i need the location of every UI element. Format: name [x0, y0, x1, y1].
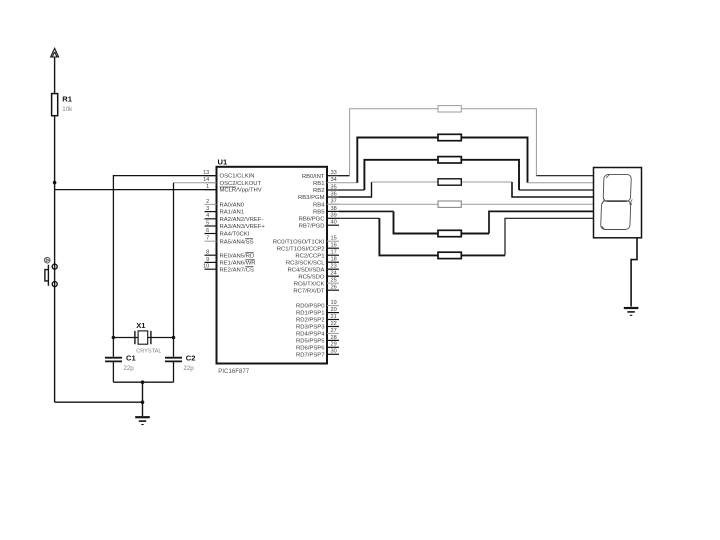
pin 39 RB6/PGC stub [327, 217, 339, 219]
svg-text:2: 2 [206, 199, 209, 205]
svg-text:1: 1 [206, 184, 209, 190]
svg-text:RD2/PSP2: RD2/PSP2 [296, 318, 324, 324]
pin 3 RA1/AN1 stub [205, 211, 217, 213]
svg-text:34: 34 [331, 177, 337, 183]
wire net RB1 to display [528, 182, 594, 184]
svg-text:10k: 10k [62, 106, 73, 113]
display digit middle-left tick [602, 199, 605, 204]
pin 16 RC1/T1OSI/CCP2 stub [327, 247, 339, 249]
pin 17 RC2/CCP1 stub [327, 254, 339, 256]
svg-text:28: 28 [331, 335, 337, 341]
pin 6 RA4/T0CKI stub [205, 233, 217, 235]
svg-text:39: 39 [331, 213, 337, 219]
wire OSC1 net [113, 176, 216, 357]
svg-text:15: 15 [331, 236, 337, 242]
svg-text:RD4/PSP4: RD4/PSP4 [296, 332, 325, 338]
wire net RB4 [327, 203, 594, 205]
svg-text:RA0/AN0: RA0/AN0 [220, 203, 245, 209]
svg-text:37: 37 [331, 199, 337, 205]
svg-text:RB4: RB4 [313, 202, 325, 208]
wire net RB0 loop [350, 109, 537, 176]
svg-text:26: 26 [331, 285, 337, 291]
display digit top-left tick [606, 175, 609, 178]
junction dot ground rail [141, 380, 145, 384]
7-segment display body [594, 168, 642, 238]
svg-text:RC7/RX/DT: RC7/RX/DT [293, 288, 324, 294]
svg-text:RA3/AN3/VREF+: RA3/AN3/VREF+ [220, 224, 266, 230]
wire bottom to ground net [55, 401, 143, 403]
svg-text:RD1/PSP1: RD1/PSP1 [296, 311, 324, 317]
pin 29 RD6/PSP6 stub [327, 346, 339, 348]
svg-text:17: 17 [331, 250, 337, 256]
wire ground rail [113, 381, 173, 383]
svg-text:RA4/T0CKI: RA4/T0CKI [220, 232, 250, 238]
svg-text:5: 5 [206, 220, 209, 226]
svg-text:RB2: RB2 [313, 188, 324, 194]
display digit lower loop [601, 201, 631, 230]
pin 34 RB1 stub [327, 182, 339, 184]
svg-text:19: 19 [331, 300, 337, 306]
svg-text:RA1/AN1: RA1/AN1 [220, 210, 245, 216]
pin 20 RD1/PSP1 stub [327, 312, 339, 314]
svg-text:C2: C2 [186, 354, 196, 363]
wire net RB3 to display [512, 182, 594, 197]
svg-text:RE1/AN6/WR: RE1/AN6/WR [220, 261, 256, 267]
svg-text:9: 9 [206, 257, 209, 263]
svg-text:RB5: RB5 [313, 210, 325, 216]
display digit group [601, 174, 634, 229]
wire C1 to ground rail [112, 361, 114, 382]
series resistor 7 (segment g) [438, 252, 461, 258]
wire OSC2 horizontal [174, 182, 217, 184]
svg-text:RC5/SDO: RC5/SDO [298, 274, 325, 280]
junction dot MCLR net [53, 181, 57, 185]
svg-text:4: 4 [206, 213, 209, 219]
pin 4 RA2/AN2/VREF- stub [205, 218, 217, 220]
svg-text:RD5/PSP5: RD5/PSP5 [296, 339, 325, 345]
junction dot crystal right [172, 336, 176, 340]
wire display common to ground [631, 238, 637, 307]
pin 27 RD4/PSP4 stub [327, 332, 339, 334]
svg-text:RC6/TX/CK: RC6/TX/CK [294, 281, 325, 287]
display digit middle-right tick [629, 199, 632, 206]
microcontroller U1 PIC16F877 body [217, 167, 328, 364]
crystal X1 [135, 331, 151, 344]
svg-text:OSC2/CLKOUT: OSC2/CLKOUT [220, 181, 262, 187]
svg-text:RB3/PGM: RB3/PGM [298, 195, 325, 201]
series resistor 1 (segment a) [438, 106, 461, 112]
svg-text:R1: R1 [62, 95, 72, 104]
svg-text:RA5/AN4/SS: RA5/AN4/SS [220, 239, 254, 245]
svg-text:20: 20 [331, 307, 337, 313]
svg-text:8: 8 [206, 250, 209, 256]
svg-text:RE2/AN7/CS: RE2/AN7/CS [220, 267, 254, 273]
wire VCC to R1 [54, 57, 56, 94]
pin 19 RD0/PSP0 stub [327, 305, 339, 307]
push button contact bottom [52, 282, 57, 287]
pin 9 RE1/AN6/WR stub [205, 261, 217, 263]
wire net RB3 row [372, 181, 513, 183]
wire net RB3 from pin [339, 182, 372, 197]
svg-text:RC1/T1OSI/CCP2: RC1/T1OSI/CCP2 [277, 246, 325, 252]
ground display [624, 308, 639, 315]
svg-text:RB6/PGC: RB6/PGC [299, 216, 326, 222]
svg-text:X1: X1 [136, 321, 146, 330]
svg-text:RA2/AN2/VREF-: RA2/AN2/VREF- [220, 217, 264, 223]
junction dot [141, 400, 145, 404]
series resistor 6 (segment f) [438, 230, 461, 236]
svg-text:RC2/CCP1: RC2/CCP1 [295, 253, 324, 259]
pin 36 RB3/PGM stub [327, 196, 339, 198]
svg-text:25: 25 [331, 278, 337, 284]
wire to ground 1 [142, 382, 144, 416]
svg-text:36: 36 [331, 191, 337, 197]
wire net RB2 loop [364, 160, 519, 190]
svg-text:PIC16F877: PIC16F877 [218, 368, 249, 375]
svg-text:22p: 22p [123, 365, 134, 372]
svg-text:RC0/T1OSO/T1CKI: RC0/T1OSO/T1CKI [273, 239, 325, 245]
pin 13 OSC1/CLKIN stub [205, 175, 217, 177]
pin 33 RB0/INT stub [327, 175, 339, 177]
pin 2 RA0/AN0 stub [205, 203, 217, 205]
svg-text:RD0/PSP0: RD0/PSP0 [296, 304, 325, 310]
svg-text:21: 21 [331, 314, 337, 320]
wire net RB2 to display [519, 189, 594, 191]
wire to MCLR pin [55, 189, 217, 191]
svg-text:RD7/PSP7: RD7/PSP7 [296, 352, 324, 358]
wire net RB5 loop [394, 211, 490, 233]
svg-text:10: 10 [203, 264, 209, 270]
wire net RB5 from pin [339, 210, 394, 212]
pin 15 RC0/T1OSO/T1CKI stub [327, 240, 339, 242]
svg-text:40: 40 [331, 220, 337, 226]
pin 37 RB4 stub [327, 203, 339, 205]
svg-text:MCLR/Vpp/THV: MCLR/Vpp/THV [220, 188, 262, 194]
svg-text:14: 14 [203, 177, 209, 183]
ground left [135, 417, 150, 424]
svg-text:13: 13 [203, 170, 209, 176]
wire net RB0 from pin [339, 175, 350, 177]
wire net RB0 to display [536, 175, 593, 177]
svg-text:16: 16 [331, 243, 337, 249]
svg-text:23: 23 [331, 264, 337, 270]
pin 22 RD3/PSP3 stub [327, 326, 339, 328]
svg-text:22: 22 [331, 321, 337, 327]
svg-text:RC3/SCK/SCL: RC3/SCK/SCL [286, 260, 325, 266]
wire net RB1 from pin [339, 182, 357, 184]
pin 25 RC6/TX/CK stub [327, 282, 339, 284]
wire net RB5 to display [489, 211, 594, 233]
svg-text:3: 3 [206, 206, 209, 212]
wire net RB6 to display [505, 218, 594, 255]
pin 7 RA5/AN4/SS stub [205, 240, 217, 242]
pin 14 OSC2/CLKOUT stub [205, 182, 217, 184]
svg-text:24: 24 [331, 271, 337, 277]
pin 8 RE0/AN5/RD stub [205, 254, 217, 256]
wire crystal row [113, 337, 173, 339]
pin 30 RD7/PSP7 stub [327, 353, 339, 355]
svg-text:29: 29 [331, 342, 337, 348]
series resistor 4 (segment d) [438, 179, 461, 185]
pin 10 RE2/AN7/CS stub [205, 268, 217, 270]
wire R1 through button to bottom [54, 116, 56, 403]
svg-text:27: 27 [331, 328, 337, 334]
pin 38 RB5 stub [327, 210, 339, 212]
svg-text:CRYSTAL: CRYSTAL [136, 349, 161, 355]
capacitor C1 [105, 358, 122, 362]
wire net RB2 from pin [339, 189, 364, 191]
pin 5 RA3/AN3/VREF+ stub [205, 225, 217, 227]
pin 21 RD2/PSP2 stub [327, 319, 339, 321]
pin 23 RC4/SDI/SDA stub [327, 268, 339, 270]
wire C2 to ground rail [173, 361, 175, 382]
pin 1 MCLR/Vpp/THV stub [205, 189, 217, 191]
wire net RB6 from pin [339, 217, 379, 219]
pin 26 RC7/RX/DT stub [327, 289, 339, 291]
pin 35 RB2 stub [327, 189, 339, 191]
pin 40 RB7/PGD stub [327, 224, 339, 226]
push button actuator [45, 265, 49, 286]
svg-text:RB7/PGD: RB7/PGD [299, 223, 325, 229]
push button contact top [52, 264, 57, 269]
junction dot crystal left [112, 336, 116, 340]
push button indicator circle [44, 257, 50, 263]
wire net RB1 loop [357, 138, 527, 183]
display digit bottom-left tick [602, 226, 605, 229]
svg-text:38: 38 [331, 206, 337, 212]
svg-text:RD6/PSP6: RD6/PSP6 [296, 345, 325, 351]
wire net RB6 loop [379, 218, 505, 255]
pin 24 RC5/SDO stub [327, 275, 339, 277]
series resistor 5 (segment e) [438, 201, 461, 207]
svg-text:U1: U1 [218, 158, 228, 167]
display digit upper loop [603, 174, 631, 201]
pin 18 RC3/SCK/SCL stub [327, 261, 339, 263]
svg-text:RC4/SDI/SDA: RC4/SDI/SDA [288, 267, 325, 273]
series resistor 3 (segment c) [438, 157, 461, 163]
svg-text:RD3/PSP3: RD3/PSP3 [296, 325, 325, 331]
power VCC arrow [51, 48, 59, 57]
svg-text:18: 18 [331, 257, 337, 263]
wire OSC2 vertical [173, 183, 175, 357]
capacitor C2 [165, 358, 182, 362]
svg-text:RB0/INT: RB0/INT [302, 174, 325, 180]
series resistor 2 (segment b) [438, 134, 461, 140]
resistor R1 [52, 94, 58, 116]
svg-text:33: 33 [331, 170, 337, 176]
svg-text:35: 35 [331, 184, 337, 190]
svg-text:OSC1/CLKIN: OSC1/CLKIN [220, 174, 255, 180]
svg-text:22p: 22p [183, 365, 194, 372]
pin 28 RD5/PSP5 stub [327, 339, 339, 341]
svg-text:RE0/AN5/RD: RE0/AN5/RD [220, 253, 255, 259]
svg-text:C1: C1 [126, 354, 136, 363]
svg-text:RB1: RB1 [313, 181, 324, 187]
svg-text:30: 30 [331, 349, 337, 355]
svg-text:7: 7 [206, 236, 209, 242]
svg-text:6: 6 [206, 228, 209, 234]
